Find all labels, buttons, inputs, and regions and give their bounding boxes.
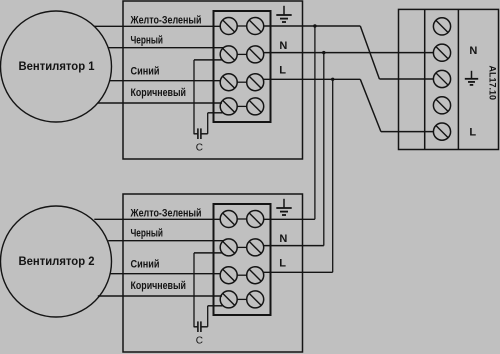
svg-text:AL17.10: AL17.10 <box>487 66 498 101</box>
svg-text:L: L <box>469 127 476 139</box>
svg-text:Вентилятор 2: Вентилятор 2 <box>19 256 95 268</box>
svg-text:N: N <box>469 45 477 57</box>
svg-text:Вентилятор 1: Вентилятор 1 <box>19 61 96 73</box>
